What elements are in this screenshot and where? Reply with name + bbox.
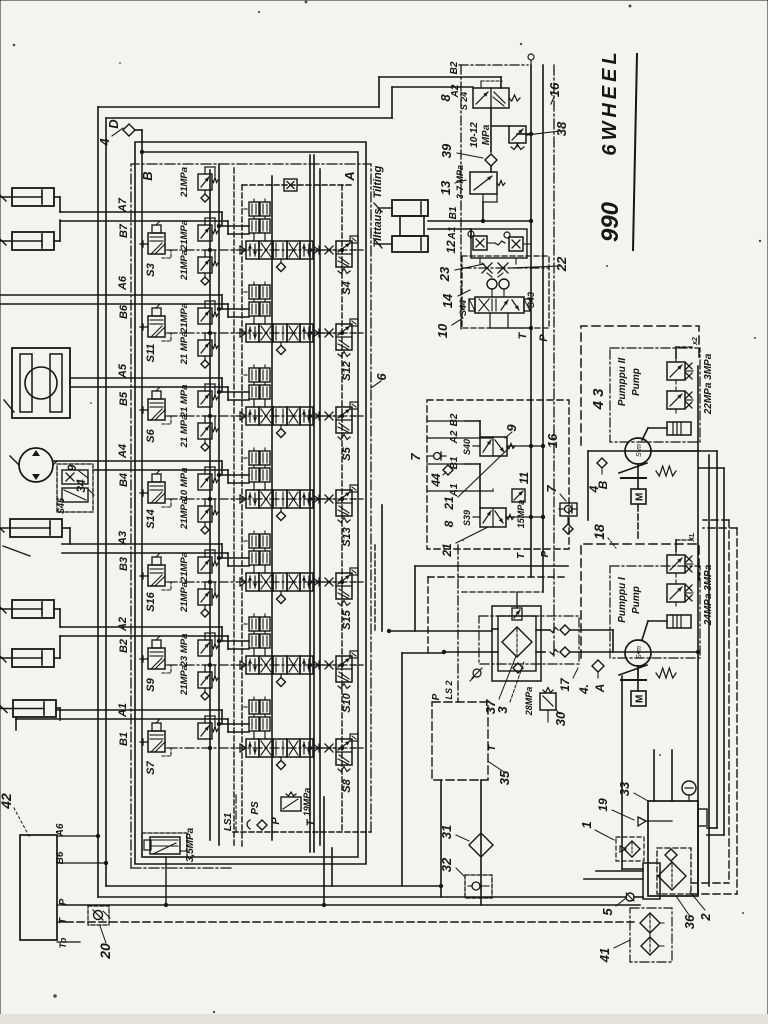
tilt cylinder link bbox=[400, 216, 424, 236]
label 12 callout bbox=[444, 240, 458, 254]
cylinder pair top (A7/B7) bbox=[0, 188, 60, 250]
pilot block 10 S44/S43 bbox=[462, 256, 549, 328]
label 21MPa lower section 1 bbox=[179, 220, 190, 251]
junction dots section 7 bbox=[208, 722, 344, 750]
spool valve section 5 bbox=[240, 573, 319, 604]
pump I pump symbol bbox=[619, 640, 676, 706]
svg-text:MPa: MPa bbox=[481, 124, 492, 145]
wire A6/B6 lines bbox=[0, 295, 249, 317]
wire S24 to 38 bbox=[491, 108, 533, 152]
label B1 tilt bbox=[448, 206, 459, 219]
wire pump I drop bbox=[622, 666, 643, 869]
label B6 42 bbox=[55, 851, 108, 865]
svg-text:A: A bbox=[593, 684, 607, 694]
valve bank top pilot element bbox=[284, 179, 297, 191]
relief valve lower section 5 bbox=[198, 550, 218, 573]
label 1 callout bbox=[579, 821, 614, 840]
svg-text:P: P bbox=[270, 817, 282, 825]
cylinder single (A1/B1) bbox=[0, 700, 60, 730]
label 16 mid bbox=[545, 433, 560, 448]
svg-text:S10: S10 bbox=[341, 692, 353, 712]
tilt cylinder lower bbox=[374, 236, 428, 252]
spool valve section 2 bbox=[240, 324, 319, 355]
svg-text:4: 4 bbox=[97, 138, 112, 147]
label x2 pump II bbox=[692, 337, 699, 346]
wire tilt B1 line bbox=[428, 219, 533, 223]
wire section 4 axis chain line bbox=[168, 498, 356, 500]
label 44 callout bbox=[429, 472, 446, 488]
svg-text:B1: B1 bbox=[118, 732, 130, 746]
svg-text:9: 9 bbox=[504, 424, 519, 432]
label P bank bottom bbox=[270, 817, 282, 825]
label B1 port bbox=[427, 456, 465, 469]
svg-text:21MPa: 21MPa bbox=[179, 167, 190, 198]
filter 37 chain box bbox=[479, 616, 579, 664]
svg-text:S11: S11 bbox=[145, 344, 157, 363]
label Tilttaus bbox=[372, 209, 384, 248]
valve S39 bbox=[462, 508, 514, 527]
junction dots section 3 bbox=[208, 390, 344, 418]
label Pumppu II bbox=[617, 358, 642, 407]
label port B4 bbox=[118, 473, 130, 487]
label XL pump I bbox=[689, 533, 696, 543]
svg-text:S13: S13 bbox=[341, 527, 353, 547]
svg-text:21 MPa: 21 MPa bbox=[179, 385, 190, 419]
label A1 port bbox=[427, 483, 465, 497]
svg-text:9: 9 bbox=[65, 464, 79, 471]
relief valve 21MPa upper section 7 bbox=[198, 665, 218, 700]
svg-text:S8: S8 bbox=[341, 778, 353, 792]
valve 13 pressure reducer 3-7MPa bbox=[470, 172, 505, 223]
label 39 callout bbox=[439, 143, 483, 158]
svg-text:10-12: 10-12 bbox=[469, 122, 480, 148]
svg-text:6: 6 bbox=[374, 373, 389, 381]
label 23 callout bbox=[437, 264, 484, 282]
pilot unit dashed box bbox=[427, 400, 569, 549]
label 36 callout bbox=[676, 896, 697, 929]
svg-text:30: 30 bbox=[553, 711, 568, 726]
svg-text:Pump: Pump bbox=[631, 586, 642, 614]
svg-text:13: 13 bbox=[438, 180, 453, 195]
svg-text:10: 10 bbox=[435, 323, 450, 338]
relief valve 21MPa upper section 3 bbox=[198, 333, 218, 368]
svg-text:19MPa: 19MPa bbox=[302, 788, 312, 817]
wire A2/B2 lines bbox=[60, 627, 249, 649]
svg-text:S4: S4 bbox=[341, 281, 353, 294]
valve S14 pressure reducer bbox=[140, 470, 171, 529]
svg-text:15MPa: 15MPa bbox=[516, 500, 526, 529]
pump II regulator 1 bbox=[667, 358, 693, 384]
svg-text:21MPa: 21MPa bbox=[179, 582, 190, 613]
label 8 mid bbox=[442, 520, 456, 527]
svg-text:4 3: 4 3 bbox=[590, 388, 607, 411]
wire section 6 axis chain line bbox=[168, 664, 356, 666]
svg-text:x2: x2 bbox=[692, 337, 699, 346]
svg-text:P: P bbox=[540, 550, 551, 557]
svg-text:A2: A2 bbox=[449, 430, 460, 444]
svg-text:21MPa: 21MPa bbox=[179, 499, 190, 530]
svg-text:23 MPa: 23 MPa bbox=[179, 634, 190, 668]
svg-text:22MPa 3MPa: 22MPa 3MPa bbox=[703, 353, 714, 415]
pump II regulator 2 bbox=[667, 387, 693, 413]
svg-text:B: B bbox=[140, 171, 155, 180]
junction dots section 6 bbox=[208, 639, 344, 667]
node B bank top-left bbox=[140, 171, 155, 180]
compensator caps section 2 bbox=[244, 282, 270, 324]
check valves by filter bbox=[550, 625, 570, 657]
label 43 bbox=[590, 388, 607, 411]
title underline bbox=[633, 54, 637, 250]
wire LS2 chain line bbox=[457, 545, 459, 702]
label 3.5MPa bbox=[185, 827, 196, 862]
valve bank inner box bbox=[142, 152, 358, 857]
label 22 callout bbox=[510, 256, 569, 272]
svg-text:S•m: S•m bbox=[636, 646, 643, 659]
svg-text:21 MPa: 21 MPa bbox=[179, 415, 190, 449]
pilot valve S8 bbox=[313, 734, 366, 793]
svg-text:P: P bbox=[431, 693, 442, 700]
svg-text:21MPa: 21MPa bbox=[179, 250, 190, 281]
svg-text:S5: S5 bbox=[341, 446, 353, 460]
svg-text:6 W H E E L: 6 W H E E L bbox=[599, 52, 621, 155]
relief valve 21MPa upper section 6 bbox=[198, 582, 218, 617]
svg-text:23: 23 bbox=[437, 266, 452, 282]
wire A5/B5 lines bbox=[70, 378, 249, 400]
label port B5 bbox=[118, 391, 130, 406]
check valve 7 left bbox=[428, 452, 446, 460]
svg-text:S39: S39 bbox=[462, 510, 472, 526]
tank 33 bbox=[638, 750, 707, 896]
label D bbox=[106, 119, 121, 129]
label 2 callout bbox=[690, 892, 713, 922]
wire filter top link bbox=[462, 592, 543, 608]
label 8 tilt bbox=[438, 94, 453, 102]
svg-text:32: 32 bbox=[439, 857, 454, 872]
valve S7 pressure reducer bbox=[140, 719, 171, 775]
svg-text:20: 20 bbox=[97, 943, 113, 960]
label A1 tilt bbox=[447, 226, 458, 240]
svg-text:35: 35 bbox=[497, 770, 512, 785]
wire bottom bus to tank bbox=[66, 904, 640, 906]
label 7 right callout bbox=[544, 485, 566, 501]
svg-text:7: 7 bbox=[544, 485, 559, 493]
filter 41 box bbox=[630, 908, 672, 962]
svg-text:T: T bbox=[516, 552, 527, 559]
svg-text:B6: B6 bbox=[118, 304, 130, 319]
label 18 bbox=[591, 524, 616, 548]
svg-text:T: T bbox=[58, 917, 69, 924]
label 21MPa upper section 6 bbox=[179, 582, 190, 613]
label A2 port bbox=[427, 430, 465, 444]
pump I servo piston bbox=[667, 615, 691, 628]
label 32 callout bbox=[439, 857, 464, 876]
wire pump II to pump I shaft bbox=[637, 505, 639, 540]
label To 42 bbox=[57, 937, 80, 948]
label 21 diag lower bbox=[440, 527, 488, 558]
hydraulic motor (A4/B4) bbox=[10, 448, 57, 482]
filter 37 block outer bbox=[492, 606, 541, 681]
svg-text:B3: B3 bbox=[118, 557, 130, 571]
svg-text:44: 44 bbox=[429, 473, 443, 488]
svg-text:D: D bbox=[106, 119, 121, 129]
label 10-12 MPa bbox=[469, 122, 492, 148]
label 21MPa upper section 1 bbox=[179, 167, 190, 198]
svg-text:31: 31 bbox=[439, 825, 454, 839]
label 21 MPa upper section 4 bbox=[179, 415, 190, 449]
label 38 callout bbox=[527, 121, 569, 136]
label 4 mid bbox=[577, 684, 591, 695]
svg-text:Pump: Pump bbox=[631, 368, 642, 396]
svg-text:S44: S44 bbox=[458, 300, 468, 316]
svg-text:21: 21 bbox=[440, 543, 454, 558]
node A diamond bbox=[592, 660, 604, 678]
compensator caps section 1 bbox=[244, 199, 270, 241]
svg-text:8: 8 bbox=[442, 520, 456, 527]
node PS bbox=[247, 801, 267, 830]
mark near filter 37 bbox=[470, 668, 482, 681]
wire P/T supply left verticals bbox=[98, 77, 501, 897]
check valve 20 bbox=[88, 906, 110, 925]
svg-text:990: 990 bbox=[597, 201, 624, 242]
valve 19MPa bbox=[281, 788, 312, 817]
wire section 1 axis chain line bbox=[168, 249, 356, 251]
wire pump I links bbox=[642, 540, 694, 640]
spool valve section 3 bbox=[240, 407, 319, 438]
label A2 tilt bbox=[450, 84, 461, 98]
node D diamond bbox=[123, 124, 144, 154]
valve 3.5MPa reducer bbox=[142, 833, 187, 907]
wire pilot unit internals bbox=[465, 421, 545, 519]
label 23 MPa lower section 6 bbox=[179, 634, 190, 668]
label 37 callout bbox=[483, 656, 516, 714]
check valve 32 bbox=[465, 875, 492, 898]
spool valve section 6 bbox=[240, 656, 319, 687]
relief valve 21MPa upper section 1 bbox=[198, 167, 218, 202]
wire right verticals bbox=[698, 366, 709, 895]
valve S3 pressure reducer bbox=[140, 221, 171, 277]
label A mid bbox=[593, 684, 607, 694]
svg-text:S45: S45 bbox=[56, 497, 66, 514]
svg-text:To: To bbox=[58, 937, 68, 948]
svg-text:M: M bbox=[635, 695, 646, 703]
wire filter block lines bbox=[492, 629, 700, 654]
label Pumppu I bbox=[617, 577, 642, 623]
svg-text:16: 16 bbox=[545, 433, 560, 448]
spool valve section 7 bbox=[240, 739, 319, 770]
check valve 7 right bbox=[559, 503, 577, 534]
valve 30 28MPa bbox=[540, 688, 556, 723]
label 9 callout bbox=[65, 464, 88, 478]
junction dots section 1 bbox=[208, 224, 344, 252]
relief valve 21MPa upper section 4 bbox=[198, 416, 218, 451]
valve S16 pressure reducer bbox=[140, 553, 171, 612]
svg-text:B1: B1 bbox=[448, 206, 459, 219]
svg-text:M: M bbox=[635, 493, 646, 501]
svg-text:17: 17 bbox=[558, 677, 572, 692]
svg-text:A7: A7 bbox=[117, 197, 129, 213]
label port A7 bbox=[117, 197, 129, 213]
svg-text:21MPa: 21MPa bbox=[179, 665, 190, 696]
pump II dashed box bbox=[581, 326, 699, 445]
pump I dashed box bbox=[581, 544, 699, 658]
svg-text:12: 12 bbox=[444, 240, 458, 254]
wire bottom dashed T line bbox=[66, 921, 637, 923]
wire bank bottom drops bbox=[322, 797, 332, 907]
pump II pump symbol bbox=[619, 438, 676, 504]
svg-text:S14: S14 bbox=[145, 509, 157, 529]
wire pump suction box bbox=[588, 451, 724, 835]
valve S9 pressure reducer bbox=[140, 636, 171, 692]
node A bank top-right bbox=[342, 171, 357, 181]
spool valve section 4 bbox=[240, 490, 319, 521]
valve 38 relief bbox=[509, 126, 526, 150]
svg-text:41: 41 bbox=[597, 948, 612, 963]
junction dots section 5 bbox=[208, 556, 344, 584]
label 14 callout bbox=[440, 290, 470, 308]
label T 42 bbox=[57, 917, 69, 924]
svg-text:B4: B4 bbox=[118, 473, 130, 487]
label port A4 bbox=[117, 444, 129, 459]
svg-text:A: A bbox=[342, 171, 357, 181]
svg-text:P: P bbox=[538, 334, 550, 342]
label B2 tilt bbox=[449, 61, 460, 74]
wire tilt A1 line bbox=[428, 229, 471, 238]
label port A1 bbox=[117, 703, 129, 718]
wire top chain line bbox=[459, 54, 534, 65]
wire section 7 axis chain line bbox=[168, 747, 356, 749]
relief valve lower section 1 bbox=[198, 218, 218, 241]
label port B2 bbox=[118, 639, 130, 653]
svg-text:28MPa: 28MPa bbox=[524, 687, 534, 717]
label port B3 bbox=[118, 557, 130, 571]
svg-text:S12: S12 bbox=[341, 361, 353, 381]
valve S44/S43 spool bbox=[458, 292, 536, 330]
pilot valve S15 bbox=[313, 568, 366, 630]
filter 37 block inner bbox=[498, 616, 536, 671]
svg-text:S3: S3 bbox=[145, 263, 157, 276]
svg-text:B2: B2 bbox=[449, 61, 460, 74]
svg-text:3,5MPa: 3,5MPa bbox=[185, 827, 196, 862]
svg-text:19: 19 bbox=[596, 798, 610, 812]
pilot valve S4 bbox=[313, 236, 366, 295]
wire A4/B4 lines bbox=[53, 461, 249, 483]
label B2 port bbox=[427, 413, 465, 426]
svg-text:Tilting: Tilting bbox=[372, 165, 384, 198]
wire pump II links bbox=[642, 347, 699, 451]
svg-text:A2: A2 bbox=[450, 84, 461, 98]
pump I regulator 1 bbox=[667, 551, 693, 577]
label 4 callout topleft bbox=[97, 128, 123, 147]
svg-text:39: 39 bbox=[439, 143, 454, 158]
wire pilot unit lower links bbox=[382, 505, 568, 886]
manifold 35 box bbox=[432, 702, 488, 780]
svg-text:S9: S9 bbox=[145, 677, 157, 691]
junction dots section 2 bbox=[208, 307, 344, 335]
svg-text:B: B bbox=[596, 480, 610, 489]
tilt cylinder upper bbox=[374, 200, 428, 216]
svg-text:21: 21 bbox=[442, 496, 456, 511]
label 21MPa lower section 2 bbox=[179, 303, 190, 334]
label 21 MPa lower section 3 bbox=[179, 385, 190, 419]
compensator caps section 4 bbox=[244, 448, 270, 490]
label 21MPa upper section 2 bbox=[179, 250, 190, 281]
label 33 callout bbox=[617, 781, 648, 801]
svg-text:B7: B7 bbox=[118, 223, 130, 238]
relief valve lower section 3 bbox=[198, 384, 218, 407]
label port A6 bbox=[117, 275, 129, 291]
svg-text:2: 2 bbox=[698, 913, 713, 922]
svg-text:A2: A2 bbox=[117, 617, 129, 632]
label 3 callout bbox=[495, 662, 524, 714]
svg-text:LS1: LS1 bbox=[223, 812, 234, 831]
svg-text:33: 33 bbox=[617, 781, 632, 796]
svg-text:B2: B2 bbox=[449, 413, 460, 426]
svg-text:S15: S15 bbox=[341, 609, 353, 629]
label 4 pump II bbox=[587, 485, 601, 493]
label 41 callout bbox=[597, 940, 630, 963]
wire bottom bus P bbox=[98, 886, 643, 897]
valve S24 block (8) bbox=[459, 81, 520, 110]
svg-text:A6: A6 bbox=[117, 275, 129, 291]
wire far right dashed pair bbox=[691, 520, 737, 894]
label 17 callout bbox=[558, 668, 578, 692]
svg-text:S6: S6 bbox=[145, 428, 157, 442]
svg-text:34: 34 bbox=[74, 479, 88, 493]
label 13 callout bbox=[438, 180, 466, 195]
svg-text:22: 22 bbox=[554, 256, 569, 272]
label T 35 bbox=[487, 744, 498, 751]
label 9 callout mid bbox=[504, 424, 519, 438]
valve bank outer box bbox=[135, 142, 366, 864]
wire bottom lines into strainer bbox=[584, 871, 643, 879]
svg-text:21MPa: 21MPa bbox=[179, 303, 190, 334]
label 28MPa bbox=[524, 687, 534, 717]
node B diamond pump II bbox=[597, 458, 607, 474]
valve bank chain-line boundary bbox=[131, 164, 371, 868]
label Tilting bbox=[372, 165, 384, 198]
wire A3/B3 lines bbox=[62, 544, 249, 566]
label 21 MPa upper section 3 bbox=[179, 332, 190, 366]
svg-text:Tilttaus: Tilttaus bbox=[372, 209, 384, 248]
wire B2 chain vertical bbox=[460, 65, 462, 330]
strainer 36/2 bbox=[643, 848, 691, 899]
label port B7 bbox=[118, 223, 130, 238]
wire section 2 axis chain line bbox=[168, 332, 356, 334]
svg-text:42: 42 bbox=[0, 793, 14, 810]
label 31 callout bbox=[439, 825, 469, 841]
svg-text:PS: PS bbox=[250, 801, 261, 815]
label 5 callout bbox=[600, 898, 626, 916]
svg-text:4.: 4. bbox=[577, 684, 591, 695]
wire section 5 axis chain line bbox=[168, 581, 356, 583]
wire bank bus lines bbox=[210, 155, 342, 852]
label port B1 bbox=[118, 732, 130, 746]
label 10 callout bbox=[435, 318, 463, 338]
label 10 MPa lower section 4 bbox=[179, 468, 190, 501]
valve S6 pressure reducer bbox=[140, 387, 171, 443]
svg-text:B5: B5 bbox=[118, 391, 130, 406]
svg-text:16: 16 bbox=[547, 82, 562, 97]
valve S40 bbox=[462, 437, 515, 456]
svg-text:5: 5 bbox=[600, 908, 615, 916]
svg-text:S16: S16 bbox=[145, 591, 157, 611]
pump II chain box bbox=[610, 348, 700, 442]
svg-text:1: 1 bbox=[579, 821, 594, 828]
breather 1 dashed box bbox=[616, 837, 644, 861]
svg-text:21MPa: 21MPa bbox=[179, 552, 190, 583]
wire A1/B1 lines bbox=[16, 710, 249, 732]
label port A2 bbox=[117, 617, 129, 632]
